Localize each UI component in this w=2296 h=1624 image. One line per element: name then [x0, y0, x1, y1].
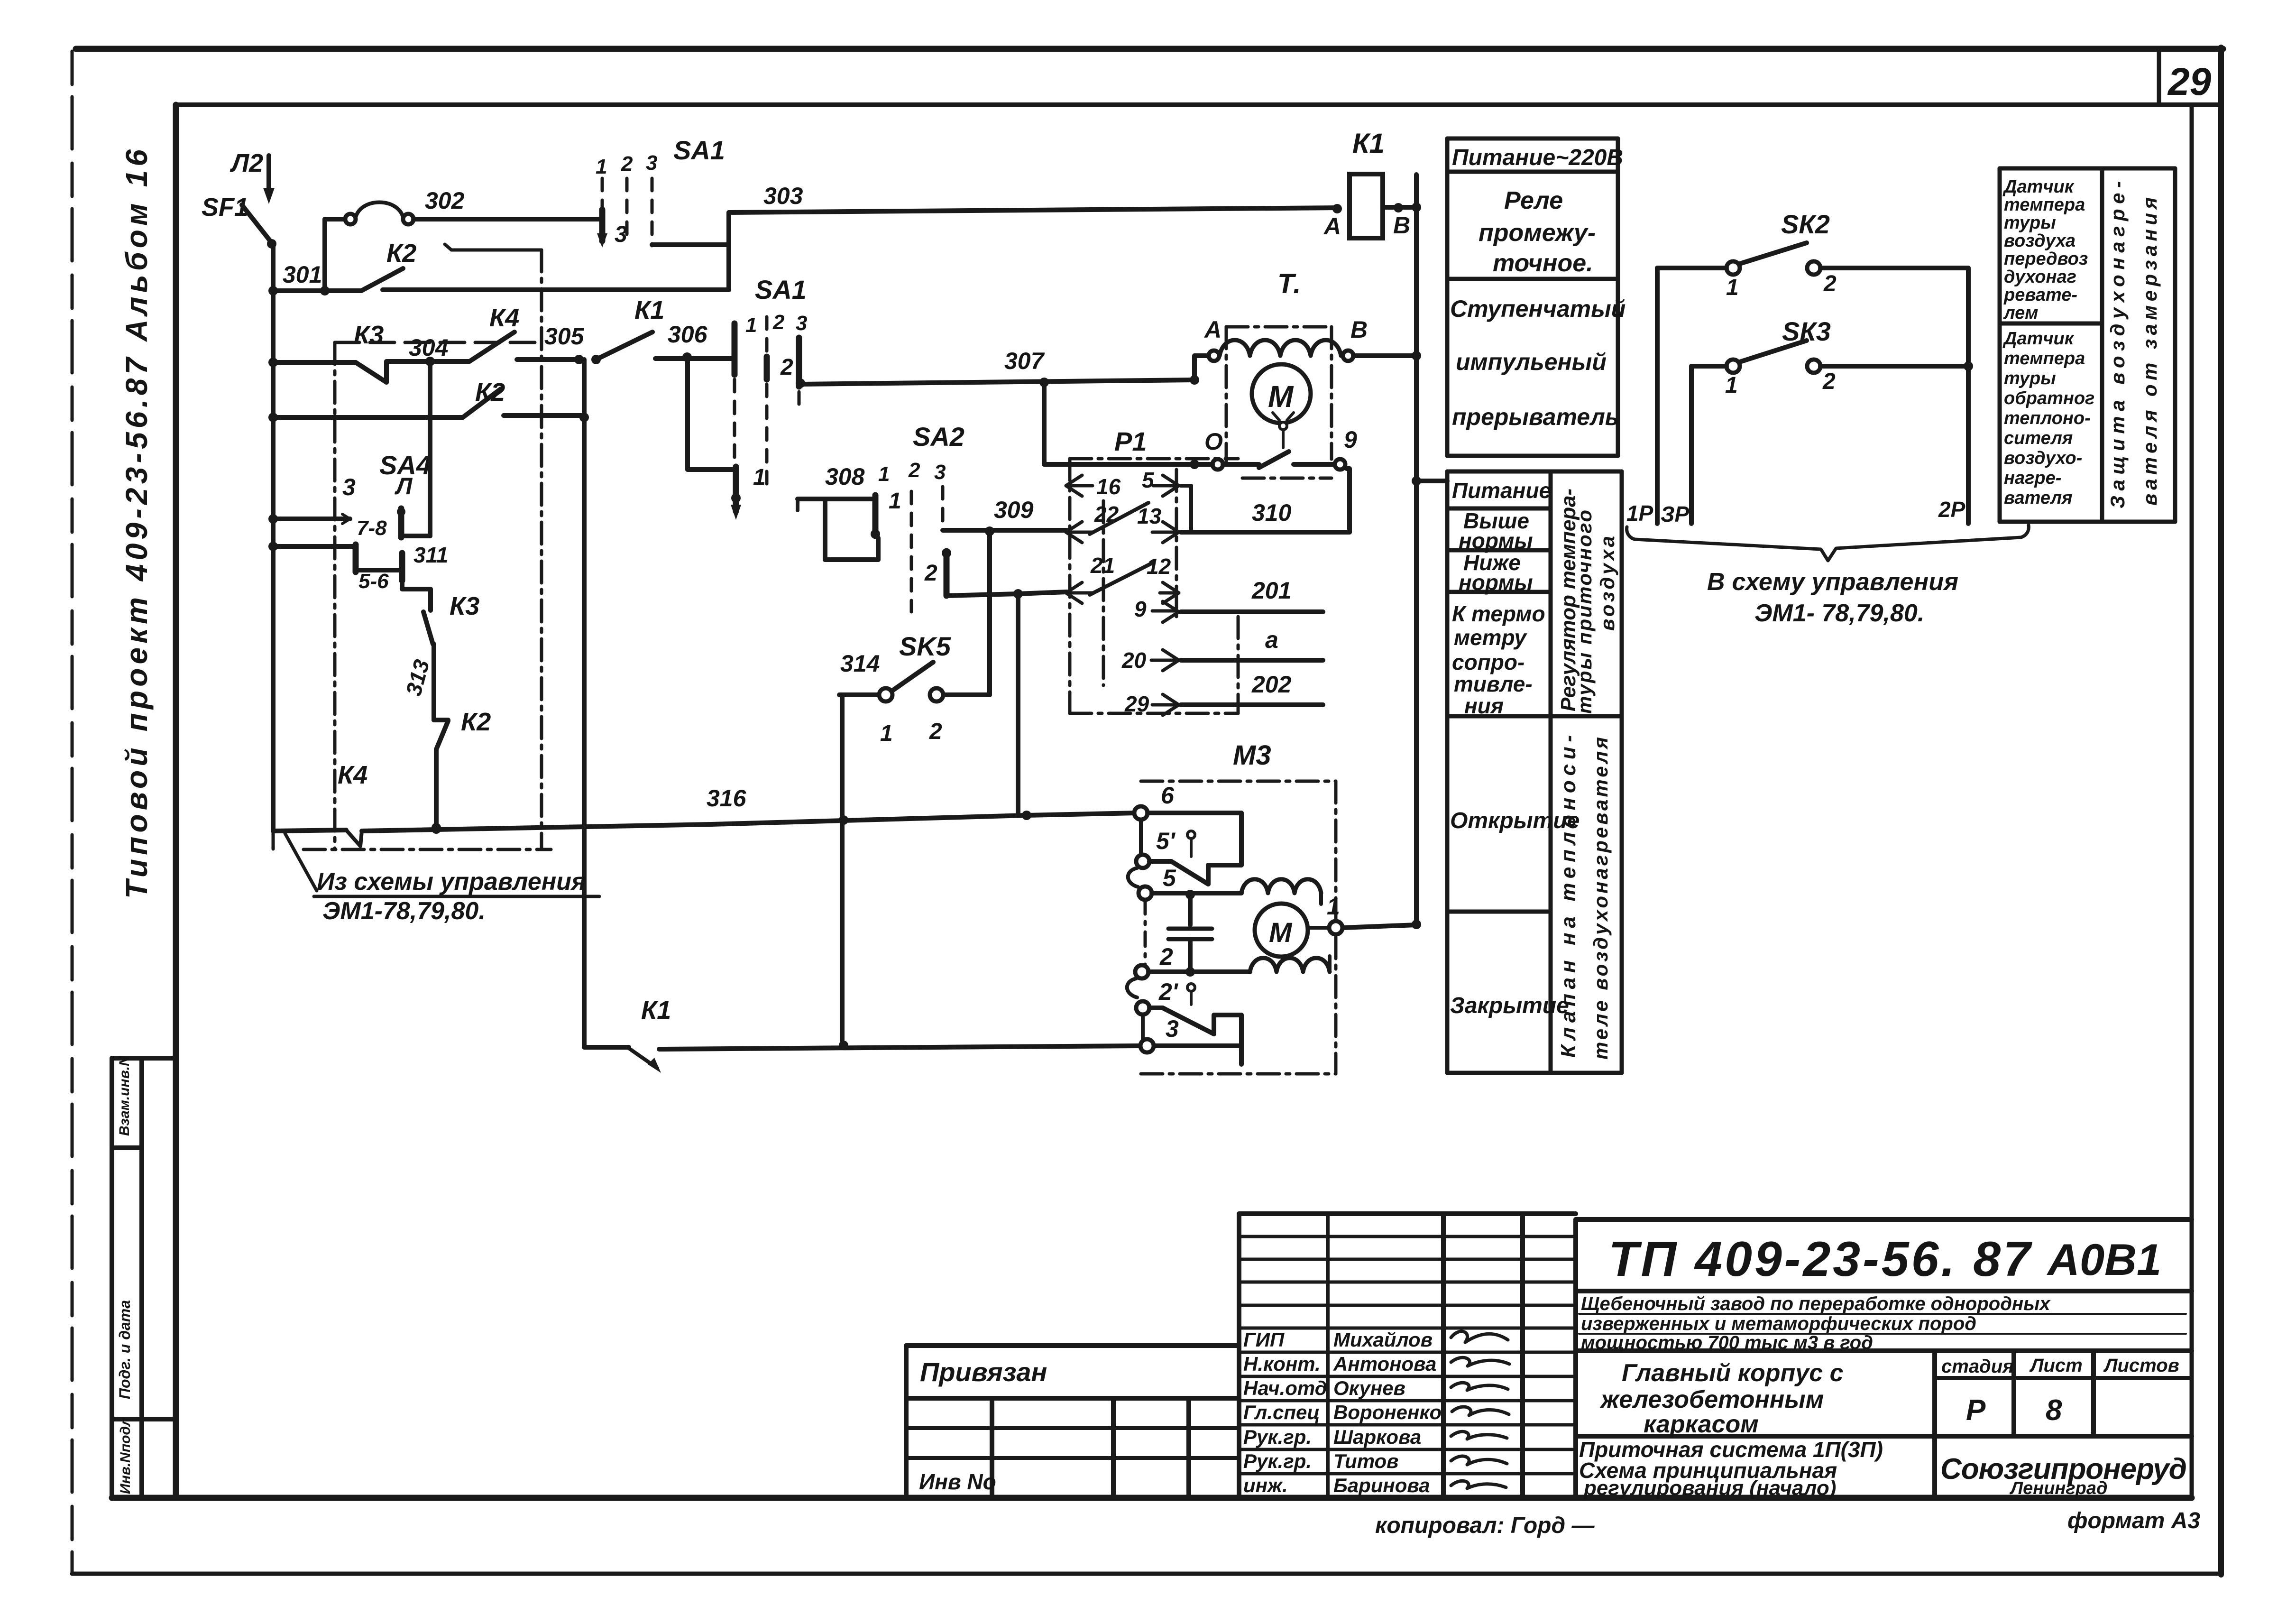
- svg-text:21: 21: [1090, 553, 1115, 578]
- svg-text:2': 2': [1158, 978, 1179, 1005]
- svg-text:2: 2: [1159, 943, 1173, 970]
- svg-text:К4: К4: [489, 304, 519, 332]
- svg-text:нормы: нормы: [1459, 528, 1533, 553]
- svg-text:201: 201: [1251, 577, 1291, 604]
- svg-text:Питание~220В: Питание~220В: [1452, 145, 1623, 170]
- svg-text:К3: К3: [450, 592, 479, 620]
- svg-text:13: 13: [1137, 504, 1162, 528]
- svg-text:Гл.спец: Гл.спец: [1243, 1401, 1320, 1423]
- svg-text:1: 1: [753, 465, 766, 490]
- svg-text:прерыватель: прерыватель: [1452, 404, 1619, 430]
- svg-text:импульеный: импульеный: [1456, 349, 1607, 375]
- svg-text:2: 2: [908, 459, 920, 482]
- svg-text:Взам.инв.N: Взам.инв.N: [117, 1055, 132, 1136]
- svg-text:мощностью 700 тыс м3 в год: мощностью 700 тыс м3 в год: [1581, 1332, 1873, 1353]
- svg-text:316: 316: [707, 785, 747, 812]
- svg-text:311: 311: [413, 543, 448, 567]
- svg-text:Р: Р: [1966, 1394, 1986, 1427]
- svg-text:301: 301: [283, 261, 322, 288]
- svg-text:Рук.гр.: Рук.гр.: [1243, 1426, 1312, 1448]
- svg-text:9: 9: [1134, 597, 1147, 621]
- svg-text:каркасом: каркасом: [1644, 1411, 1759, 1438]
- svg-text:2: 2: [772, 311, 785, 334]
- svg-text:обратног: обратног: [2004, 388, 2094, 408]
- svg-text:SA2: SA2: [913, 422, 964, 452]
- svg-text:Л2: Л2: [230, 149, 263, 177]
- svg-text:ния: ния: [1464, 693, 1504, 718]
- svg-text:инж.: инж.: [1243, 1474, 1288, 1496]
- svg-text:SК2: SК2: [1781, 209, 1830, 239]
- svg-text:302: 302: [425, 187, 465, 214]
- svg-text:Н.конт.: Н.конт.: [1243, 1353, 1321, 1375]
- svg-text:М: М: [1269, 917, 1293, 948]
- svg-text:Рук.гр.: Рук.гр.: [1243, 1450, 1312, 1472]
- svg-text:1: 1: [1726, 275, 1739, 300]
- svg-text:Реле: Реле: [1504, 187, 1563, 214]
- svg-text:К1: К1: [634, 296, 664, 324]
- svg-text:Датчик: Датчик: [2002, 329, 2075, 349]
- svg-text:Окунев: Окунев: [1333, 1377, 1405, 1399]
- svg-text:SA1: SA1: [673, 135, 725, 165]
- svg-text:туры: туры: [2004, 369, 2056, 388]
- svg-text:передвоз: передвоз: [2004, 249, 2088, 269]
- svg-text:промежу-: промежу-: [1479, 219, 1596, 247]
- svg-text:Из схемы управления: Из схемы управления: [317, 868, 586, 895]
- svg-text:Нач.отд: Нач.отд: [1243, 1377, 1327, 1399]
- svg-text:SA1: SA1: [755, 275, 807, 304]
- svg-text:М3: М3: [1233, 740, 1271, 771]
- svg-text:2: 2: [1823, 271, 1837, 296]
- svg-text:К2: К2: [475, 378, 505, 406]
- svg-text:Антонова: Антонова: [1333, 1353, 1436, 1375]
- svg-text:12: 12: [1147, 554, 1171, 579]
- svg-text:Ступенчатый: Ступенчатый: [1450, 295, 1626, 322]
- svg-text:Питание: Питание: [1452, 478, 1551, 503]
- svg-text:29: 29: [2167, 60, 2212, 103]
- svg-text:Инв.Nподл: Инв.Nподл: [118, 1417, 133, 1494]
- svg-text:регулирования (начало): регулирования (начало): [1583, 1476, 1836, 1500]
- svg-text:В: В: [1350, 316, 1368, 343]
- svg-text:точное.: точное.: [1493, 249, 1593, 277]
- svg-text:К1: К1: [1352, 128, 1385, 159]
- svg-text:306: 306: [668, 321, 708, 348]
- svg-text:Защита воздухонагре-: Защита воздухонагре-: [2106, 181, 2129, 508]
- svg-text:1: 1: [1725, 373, 1738, 398]
- svg-text:ЭМ1- 78,79,80.: ЭМ1- 78,79,80.: [1754, 600, 1924, 627]
- svg-text:314: 314: [840, 650, 880, 677]
- svg-text:стадия: стадия: [1941, 1356, 2014, 1377]
- svg-text:ТП 409-23-56. 87: ТП 409-23-56. 87: [1608, 1232, 2032, 1287]
- svg-text:Ленинград: Ленинград: [2009, 1478, 2107, 1498]
- svg-text:20: 20: [1121, 648, 1147, 673]
- svg-text:железобетонным: железобетонным: [1599, 1386, 1824, 1413]
- svg-text:М: М: [1268, 379, 1294, 414]
- svg-text:Михайлов: Михайлов: [1333, 1329, 1433, 1351]
- svg-text:Баринова: Баринова: [1333, 1474, 1430, 1496]
- svg-text:2: 2: [780, 355, 793, 380]
- svg-text:16: 16: [1096, 474, 1121, 499]
- svg-text:Главный корпус с: Главный корпус с: [1622, 1359, 1844, 1387]
- svg-text:темпера: темпера: [2004, 195, 2085, 215]
- svg-text:теле воздухонагревателя: теле воздухонагревателя: [1589, 737, 1612, 1060]
- svg-text:3: 3: [646, 151, 657, 175]
- svg-text:1: 1: [745, 314, 757, 337]
- svg-text:8: 8: [2046, 1394, 2062, 1427]
- svg-text:303: 303: [763, 183, 803, 209]
- svg-text:1: 1: [878, 462, 890, 486]
- svg-text:Закрытие: Закрытие: [1450, 993, 1569, 1018]
- svg-text:2: 2: [621, 152, 633, 175]
- svg-text:3: 3: [934, 461, 946, 484]
- svg-text:Датчик: Датчик: [2002, 177, 2075, 197]
- svg-text:1: 1: [889, 489, 901, 514]
- svg-text:ревате-: ревате-: [2003, 285, 2077, 305]
- svg-text:202: 202: [1251, 671, 1292, 698]
- svg-text:307: 307: [1004, 348, 1045, 374]
- svg-text:5: 5: [1142, 468, 1155, 492]
- svg-text:9: 9: [1344, 426, 1357, 453]
- svg-text:лем: лем: [2003, 303, 2038, 323]
- svg-text:К3: К3: [354, 321, 384, 349]
- svg-text:воздуха: воздуха: [2004, 231, 2076, 251]
- svg-text:нагре-: нагре-: [2004, 468, 2061, 488]
- svg-text:Т.: Т.: [1277, 268, 1301, 299]
- svg-text:2: 2: [1822, 369, 1836, 394]
- svg-text:К1: К1: [641, 996, 671, 1024]
- svg-text:3: 3: [1166, 1015, 1179, 1042]
- svg-text:6: 6: [1161, 782, 1175, 809]
- svg-text:1Р: 1Р: [1626, 501, 1653, 526]
- svg-text:Листов: Листов: [2103, 1355, 2179, 1376]
- svg-text:К2: К2: [461, 708, 491, 736]
- svg-text:22: 22: [1094, 502, 1119, 526]
- svg-text:309: 309: [994, 497, 1034, 523]
- svg-text:Л: Л: [395, 473, 413, 499]
- svg-text:В: В: [1393, 212, 1410, 239]
- svg-text:310: 310: [1252, 499, 1292, 526]
- svg-text:5-6: 5-6: [358, 570, 389, 593]
- svg-text:А: А: [1323, 213, 1341, 240]
- svg-text:2: 2: [924, 561, 937, 586]
- svg-text:1: 1: [1327, 893, 1340, 920]
- svg-text:Щебеночный завод по переработк: Щебеночный завод по переработке однородн…: [1581, 1293, 2051, 1314]
- svg-text:А: А: [1203, 316, 1221, 343]
- svg-text:туры: туры: [2004, 213, 2056, 233]
- svg-text:Лист: Лист: [2029, 1355, 2083, 1376]
- svg-text:Привязан: Привязан: [920, 1357, 1047, 1387]
- svg-text:Р1: Р1: [1114, 426, 1147, 456]
- svg-text:А0В1: А0В1: [2047, 1235, 2161, 1284]
- svg-text:3: 3: [342, 474, 356, 500]
- svg-text:воздуха: воздуха: [1596, 536, 1618, 631]
- svg-text:К термо: К термо: [1452, 601, 1545, 626]
- svg-text:К2: К2: [386, 239, 416, 268]
- svg-text:туры приточного: туры приточного: [1573, 510, 1596, 714]
- svg-text:духонаг: духонаг: [2004, 267, 2076, 287]
- svg-text:308: 308: [825, 463, 865, 490]
- svg-text:5: 5: [1163, 865, 1176, 891]
- svg-text:1: 1: [596, 155, 607, 178]
- svg-text:Вороненко: Вороненко: [1333, 1401, 1442, 1423]
- svg-text:К4: К4: [338, 761, 367, 789]
- svg-text:воздухо-: воздухо-: [2004, 448, 2082, 468]
- svg-text:29: 29: [1124, 692, 1149, 716]
- svg-text:вателя: вателя: [2004, 488, 2073, 508]
- svg-text:2Р: 2Р: [1938, 497, 1965, 522]
- svg-text:a: a: [1265, 627, 1278, 653]
- svg-text:изверженных и метаморфических: изверженных и метаморфических пород: [1581, 1313, 1976, 1334]
- svg-text:1: 1: [880, 721, 893, 746]
- svg-text:копировал: Горд —: копировал: Горд —: [1375, 1513, 1595, 1538]
- svg-text:3: 3: [796, 312, 807, 335]
- svg-text:Подг. и дата: Подг. и дата: [116, 1300, 133, 1399]
- svg-text:305: 305: [544, 323, 585, 350]
- svg-text:темпера: темпера: [2004, 349, 2085, 369]
- svg-text:5': 5': [1156, 828, 1176, 854]
- svg-text:Шаркова: Шаркова: [1333, 1426, 1421, 1448]
- svg-text:2: 2: [929, 719, 942, 744]
- svg-text:SK5: SK5: [899, 631, 951, 661]
- svg-text:Инв No: Инв No: [919, 1469, 996, 1494]
- svg-text:сителя: сителя: [2004, 428, 2073, 448]
- svg-text:Типовой проект 409-23-56.87: Типовой проект 409-23-56.87 Альбом 16: [119, 149, 154, 899]
- svg-text:сопро-: сопро-: [1452, 650, 1525, 674]
- svg-text:ЭМ1-78,79,80.: ЭМ1-78,79,80.: [322, 897, 486, 925]
- svg-text:метру: метру: [1454, 625, 1527, 650]
- svg-text:теплоно-: теплоно-: [2004, 408, 2091, 428]
- svg-text:7-8: 7-8: [357, 517, 387, 540]
- svg-text:формат А3: формат А3: [2067, 1508, 2200, 1533]
- svg-text:В схему управления: В схему управления: [1707, 568, 1958, 596]
- svg-text:ЗР: ЗР: [1661, 502, 1690, 526]
- svg-text:тивле-: тивле-: [1454, 672, 1533, 696]
- svg-text:304: 304: [409, 334, 448, 361]
- svg-text:ГИП: ГИП: [1243, 1329, 1285, 1351]
- svg-text:нормы: нормы: [1459, 570, 1533, 595]
- svg-text:О: О: [1204, 428, 1223, 455]
- svg-text:Титов: Титов: [1333, 1450, 1399, 1472]
